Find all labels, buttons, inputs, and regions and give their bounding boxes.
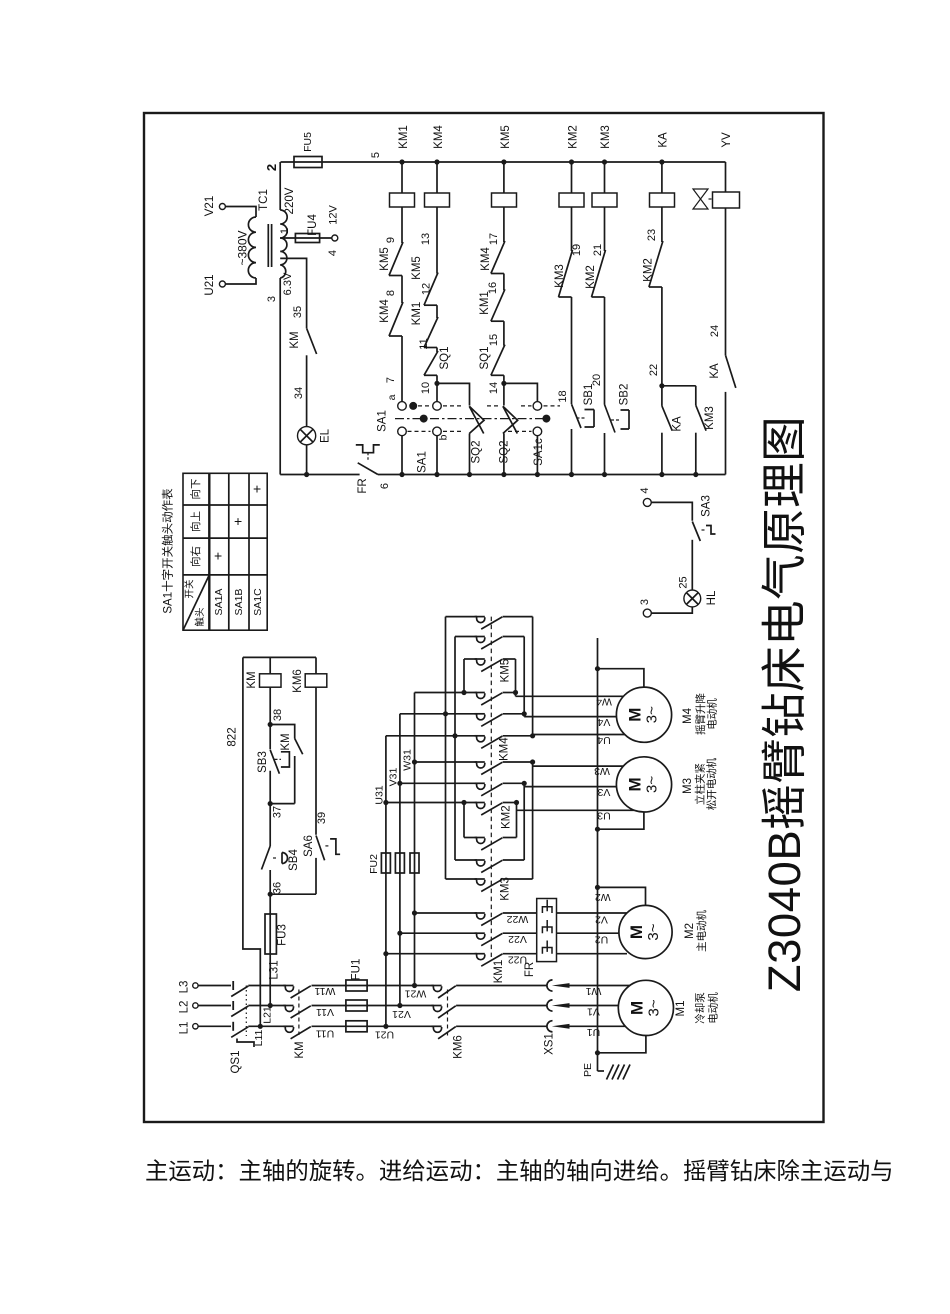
svg-text:3: 3 xyxy=(639,599,651,605)
rail junction dots xyxy=(304,472,309,477)
solenoid valve symbol xyxy=(693,189,708,209)
motor M4 xyxy=(616,687,671,742)
svg-text:W4: W4 xyxy=(596,696,612,708)
coil KM xyxy=(269,657,271,673)
coil KM1 xyxy=(390,193,415,207)
svg-text:V4: V4 xyxy=(597,716,610,728)
svg-text:SA1: SA1 xyxy=(377,410,389,432)
SA1b contact circles xyxy=(433,402,442,411)
svg-text:KM2: KM2 xyxy=(500,805,512,829)
contact KM5 NC (9-8) xyxy=(389,275,402,277)
contact KM2 NC (23) xyxy=(649,286,662,288)
svg-text:10: 10 xyxy=(420,382,432,394)
wire V21 to primary xyxy=(225,207,256,218)
svg-text:TC1: TC1 xyxy=(258,189,270,211)
rail node KM3 xyxy=(602,159,607,164)
svg-text:M: M xyxy=(627,1001,646,1015)
svg-text:KM4: KM4 xyxy=(498,737,510,761)
caption text xyxy=(145,1152,894,1186)
svg-text:1: 1 xyxy=(279,228,291,234)
coil KA xyxy=(650,193,675,207)
supply terminal L1 xyxy=(193,1024,198,1029)
control rail 2 xyxy=(281,161,726,163)
svg-text:U21: U21 xyxy=(375,1028,394,1040)
svg-text:9: 9 xyxy=(385,237,397,243)
svg-text:KM: KM xyxy=(280,733,292,750)
svg-text:SA6: SA6 xyxy=(303,835,315,857)
svg-text:YV: YV xyxy=(721,132,733,148)
fuse FU4 xyxy=(295,234,319,243)
phase wire V after QS1 xyxy=(248,1005,285,1007)
svg-text:FR: FR xyxy=(357,478,369,493)
overload relay FR heaters xyxy=(537,899,557,962)
column V31 xyxy=(399,714,401,1006)
node 14 xyxy=(501,381,506,386)
svg-text:M2: M2 xyxy=(684,923,696,939)
svg-text:W21: W21 xyxy=(405,988,427,1000)
contact KM3 NC (19) xyxy=(559,296,572,298)
svg-text:HL: HL xyxy=(706,590,718,605)
svg-text:开关: 开关 xyxy=(184,579,196,599)
svg-text:38: 38 xyxy=(272,709,284,721)
wire to SA3 xyxy=(651,502,692,520)
svg-text:W3: W3 xyxy=(594,765,610,777)
thermal contact FR xyxy=(358,463,378,475)
wire 22 branch xyxy=(662,385,696,387)
svg-text:M4: M4 xyxy=(682,707,694,724)
svg-text:220V: 220V xyxy=(284,187,296,214)
svg-text:KM5: KM5 xyxy=(379,247,391,271)
rung KM1 wire xyxy=(401,162,403,193)
svg-text:L2: L2 xyxy=(179,1001,191,1014)
tap junctions to FU2 columns xyxy=(412,983,417,988)
svg-text:KA: KA xyxy=(672,416,684,432)
svg-text:L21: L21 xyxy=(261,1006,273,1024)
wire tap 1 to FU4 xyxy=(280,237,332,239)
svg-text:13: 13 xyxy=(420,233,432,245)
SA1 pivot dots xyxy=(409,402,417,410)
pushbutton SB3 NO xyxy=(270,750,279,774)
supply terminal L3 xyxy=(193,983,198,988)
svg-text:KM: KM xyxy=(246,671,258,688)
coil KM5 xyxy=(492,193,517,207)
svg-text:KM4: KM4 xyxy=(433,125,445,149)
bridge feed wires xyxy=(446,616,478,618)
svg-text:FU1: FU1 xyxy=(351,959,363,981)
svg-text:7: 7 xyxy=(385,377,397,383)
contact KM2 NC (21) xyxy=(592,296,605,298)
svg-text:12: 12 xyxy=(420,283,432,295)
svg-text:L31: L31 xyxy=(269,960,281,979)
svg-text:+: + xyxy=(230,517,246,525)
svg-text:18: 18 xyxy=(557,390,569,402)
subcircuit top wire xyxy=(243,656,316,658)
contact KM1 NC (12-11) xyxy=(424,347,437,349)
svg-text:PE: PE xyxy=(582,1063,594,1077)
svg-text:SA1A: SA1A xyxy=(213,589,225,616)
svg-text:822: 822 xyxy=(226,727,238,746)
svg-text:M: M xyxy=(627,925,646,939)
supply terminal L2 xyxy=(193,1003,198,1008)
contact KM NO (35-34) xyxy=(307,328,317,354)
wires to FU1 xyxy=(312,985,369,987)
svg-text:KM1: KM1 xyxy=(479,291,491,315)
coil YV xyxy=(713,192,740,208)
svg-text:V21: V21 xyxy=(204,196,216,216)
node 22 xyxy=(659,383,664,388)
bridge linkage dashed xyxy=(490,617,492,957)
svg-text:37: 37 xyxy=(271,806,283,818)
svg-text:W22: W22 xyxy=(507,913,529,925)
svg-text:3~: 3~ xyxy=(643,706,660,723)
fuse FU2 (three) xyxy=(381,853,390,873)
svg-text:U4: U4 xyxy=(597,734,611,746)
svg-text:20: 20 xyxy=(591,374,603,386)
svg-text:6.3V: 6.3V xyxy=(282,272,294,295)
svg-text:2: 2 xyxy=(264,164,279,171)
wires KM6 to XS1 xyxy=(456,985,547,987)
connector XS1 xyxy=(547,980,553,991)
svg-text:6: 6 xyxy=(379,483,391,489)
svg-text:摇臂升降: 摇臂升降 xyxy=(694,693,707,735)
contact KA NO (24) xyxy=(726,355,736,388)
svg-text:W2: W2 xyxy=(595,891,611,903)
svg-text:冷却泵: 冷却泵 xyxy=(693,992,706,1024)
wire SA1b to rail xyxy=(436,436,438,475)
svg-text:KM5: KM5 xyxy=(500,125,512,149)
M1 frame stub xyxy=(595,1050,600,1055)
svg-text:SA3: SA3 xyxy=(701,495,713,517)
svg-text:5: 5 xyxy=(370,152,382,158)
terminal 3a xyxy=(643,609,651,617)
contact SQ1 NC (15-14) xyxy=(491,374,504,376)
control bottom rail xyxy=(280,474,359,476)
rail node KM5 xyxy=(501,159,506,164)
svg-text:FU3: FU3 xyxy=(277,924,289,946)
svg-text:4: 4 xyxy=(639,487,651,493)
svg-text:V3: V3 xyxy=(597,786,610,798)
table SA1 cross-switch action xyxy=(183,473,267,630)
svg-text:向右: 向右 xyxy=(189,546,202,567)
svg-text:~380V: ~380V xyxy=(236,230,250,265)
column U31 xyxy=(385,736,387,1027)
bridge contacts KM5/KM4/KM2/KM3/KM1 (15 NO contacts) xyxy=(475,616,485,618)
svg-text:17: 17 xyxy=(488,233,500,245)
svg-text:35: 35 xyxy=(292,306,304,318)
svg-text:+: + xyxy=(210,552,226,560)
svg-text:U11: U11 xyxy=(316,1028,335,1040)
ground PE symbol xyxy=(598,1070,605,1072)
SA1a contact circles xyxy=(398,402,407,411)
wire SA1c to rail xyxy=(536,436,538,475)
SA1c contact circles xyxy=(533,402,542,411)
svg-text:b: b xyxy=(437,434,449,440)
rung KM3 wire xyxy=(604,162,606,193)
svg-text:23: 23 xyxy=(646,229,658,241)
svg-text:V22: V22 xyxy=(508,933,527,945)
svg-text:+: + xyxy=(249,485,265,493)
svg-text:KM3: KM3 xyxy=(600,125,612,149)
svg-text:KM3: KM3 xyxy=(499,877,511,901)
svg-text:SQ1: SQ1 xyxy=(439,346,451,369)
svg-text:FU2: FU2 xyxy=(368,854,380,874)
QS1 handle xyxy=(237,1039,254,1048)
svg-text:XS1: XS1 xyxy=(544,1033,556,1055)
contactor KM main contacts xyxy=(283,985,293,987)
motor M3 xyxy=(616,757,671,812)
column W31 xyxy=(414,693,416,986)
phase wire U after QS1 xyxy=(248,1025,285,1027)
svg-text:M1: M1 xyxy=(675,1001,687,1017)
svg-text:M3: M3 xyxy=(682,778,694,794)
svg-text:W31: W31 xyxy=(401,749,413,771)
svg-text:36: 36 xyxy=(271,882,283,894)
svg-text:SA1c: SA1c xyxy=(533,438,545,466)
svg-text:3~: 3~ xyxy=(645,923,662,940)
svg-text:EL: EL xyxy=(320,428,332,443)
svg-text:14: 14 xyxy=(488,382,500,394)
switch QS1 blades xyxy=(231,986,248,997)
svg-text:KM6: KM6 xyxy=(292,669,304,693)
svg-text:3~: 3~ xyxy=(643,776,660,793)
rung YV wire xyxy=(725,162,727,192)
SQ2 wedge 1 xyxy=(469,406,484,433)
transformer TC1 primary winding xyxy=(248,217,256,278)
svg-text:12V: 12V xyxy=(327,205,339,225)
svg-text:SB3: SB3 xyxy=(257,751,269,773)
svg-text:电动机: 电动机 xyxy=(705,698,718,730)
svg-text:25: 25 xyxy=(677,576,689,588)
SA1 dashed contact rows xyxy=(418,405,431,407)
svg-text:电动机: 电动机 xyxy=(706,992,719,1024)
pushbutton SB1 NC xyxy=(572,404,582,428)
svg-text:a: a xyxy=(386,394,398,400)
wire 14 to SA1c xyxy=(504,383,538,401)
svg-text:向上: 向上 xyxy=(189,511,202,532)
svg-text:3: 3 xyxy=(266,296,278,302)
svg-text:KM1: KM1 xyxy=(411,302,423,326)
rail node KA xyxy=(659,159,664,164)
wire 6.3V tap to EL branch xyxy=(280,258,306,328)
svg-text:24: 24 xyxy=(709,325,721,337)
coil KM6 xyxy=(315,657,317,673)
transformer TC1 secondary 220V winding xyxy=(280,210,287,238)
wire SA1a to rail xyxy=(401,436,403,475)
svg-text:Z3040B摇臂钻床电气原理图: Z3040B摇臂钻床电气原理图 xyxy=(759,416,810,992)
svg-text:KM2: KM2 xyxy=(643,258,655,282)
subcircuit left branch 822 xyxy=(243,657,260,1026)
bridge output wires to M4 xyxy=(503,616,533,618)
svg-text:21: 21 xyxy=(592,244,604,256)
svg-text:KM6: KM6 xyxy=(452,1035,464,1059)
svg-text:19: 19 xyxy=(571,244,583,256)
svg-text:KM2: KM2 xyxy=(585,265,597,289)
svg-text:KA: KA xyxy=(658,132,670,148)
transformer TC1 core xyxy=(267,224,269,267)
border frame xyxy=(144,113,824,1122)
rung KA wire xyxy=(661,162,663,193)
rail node KM4 xyxy=(434,159,439,164)
wire 7 xyxy=(401,336,403,402)
svg-text:U3: U3 xyxy=(597,810,611,822)
contact SQ1 NC (11-10) xyxy=(424,374,437,376)
contact KM1 NC (16-15) xyxy=(491,320,504,322)
bridge output wires to M3 xyxy=(503,761,533,763)
W2 lead xyxy=(595,885,600,890)
svg-text:L3: L3 xyxy=(179,981,191,994)
svg-text:KM3: KM3 xyxy=(704,406,716,430)
rung KM2 wire xyxy=(571,162,573,193)
svg-text:SQ2: SQ2 xyxy=(470,440,482,463)
svg-text:KM1: KM1 xyxy=(398,125,410,149)
svg-text:KA: KA xyxy=(709,363,721,379)
contact KM NO self-hold branch xyxy=(270,725,295,739)
switch SA3 xyxy=(692,522,700,542)
svg-text:V11: V11 xyxy=(316,1006,334,1018)
svg-text:QS1: QS1 xyxy=(230,1050,242,1073)
fuse FU5 xyxy=(294,157,322,168)
svg-text:L11: L11 xyxy=(253,1029,265,1046)
svg-text:SA1: SA1 xyxy=(417,451,429,473)
M4 frame stub xyxy=(595,666,600,671)
transformer TC1 secondary 6.3V winding xyxy=(280,238,287,278)
motor M2 xyxy=(619,905,672,958)
svg-text:FU4: FU4 xyxy=(307,214,319,236)
svg-text:向下: 向下 xyxy=(189,479,202,500)
contact KM3 NO (parallel) xyxy=(695,386,697,406)
switch SA6 branch xyxy=(315,687,317,835)
svg-text:FR: FR xyxy=(524,962,536,977)
svg-text:SA1C: SA1C xyxy=(252,588,264,616)
contact KM4 NC (8-7) xyxy=(389,335,402,337)
svg-text:KM5: KM5 xyxy=(499,659,511,683)
svg-text:V21: V21 xyxy=(392,1008,411,1020)
wires FU1 to KM6 xyxy=(367,985,434,987)
lamp EL xyxy=(298,427,316,445)
svg-text:立柱夹紧: 立柱夹紧 xyxy=(693,763,706,805)
svg-text:15: 15 xyxy=(488,334,500,346)
svg-text:SQ1: SQ1 xyxy=(479,346,491,369)
node 36 xyxy=(268,892,273,897)
terminal 4a xyxy=(643,498,651,506)
contactor KM6 main contacts xyxy=(431,985,441,987)
limit switch SQ2 branch 2 wedge xyxy=(503,406,518,433)
svg-text:8: 8 xyxy=(385,290,397,296)
svg-text:U21: U21 xyxy=(204,274,216,295)
terminal 4 (12V) xyxy=(332,235,338,241)
KM1 outputs to FR xyxy=(503,912,537,914)
lamp HL xyxy=(684,590,701,607)
svg-text:3~: 3~ xyxy=(645,999,662,1016)
svg-text:SA1B: SA1B xyxy=(233,589,245,616)
svg-text:KM: KM xyxy=(294,1041,306,1058)
svg-text:主电动机: 主电动机 xyxy=(695,910,708,952)
phase wire W after QS1 xyxy=(248,985,285,987)
FR outputs to M2 xyxy=(557,912,647,914)
svg-text:22: 22 xyxy=(648,364,660,376)
contact KA NO xyxy=(662,406,672,431)
terminal V21 xyxy=(219,204,225,210)
svg-text:W11: W11 xyxy=(314,985,335,997)
svg-text:34: 34 xyxy=(293,387,305,399)
fuse FU3 xyxy=(269,894,271,1005)
pushbutton SB2 NC xyxy=(605,405,616,433)
svg-text:M: M xyxy=(625,777,644,791)
coil KM3 xyxy=(592,193,617,207)
svg-text:L1: L1 xyxy=(179,1022,191,1035)
node 10 xyxy=(434,381,439,386)
node 38 xyxy=(268,722,273,727)
node 5 xyxy=(399,159,404,164)
svg-text:KM4: KM4 xyxy=(379,299,391,323)
svg-text:W1: W1 xyxy=(585,985,601,997)
svg-text:SB2: SB2 xyxy=(619,384,631,406)
svg-text:KM1: KM1 xyxy=(493,960,505,984)
switch SA1 mechanical dash-dot line xyxy=(395,418,551,420)
svg-text:KM3: KM3 xyxy=(554,264,566,288)
rail node KM2 xyxy=(569,159,574,164)
PE bus xyxy=(597,638,599,1071)
svg-text:39: 39 xyxy=(316,812,328,824)
svg-text:SQ2: SQ2 xyxy=(499,440,511,463)
M3 frame stub xyxy=(595,827,600,832)
svg-text:SB4: SB4 xyxy=(288,849,300,871)
svg-text:KM5: KM5 xyxy=(411,256,423,280)
svg-text:M: M xyxy=(625,708,644,722)
coil KM2 xyxy=(559,193,584,207)
wire 220V tap to rail 2 xyxy=(279,162,281,210)
svg-text:SA1十字开关触头动作表: SA1十字开关触头动作表 xyxy=(161,488,175,614)
contact KM4 NC (17-16) xyxy=(491,273,504,275)
contact KM5 NC (13-12) xyxy=(424,304,437,306)
fuse FU1 (three) xyxy=(346,980,367,991)
svg-text:KM4: KM4 xyxy=(480,247,492,271)
terminal U21 xyxy=(219,281,225,287)
rung KM5 wire xyxy=(503,162,505,193)
QS1 linkage xyxy=(245,986,247,1037)
wire U21 to primary xyxy=(225,278,256,284)
coil KM4 xyxy=(425,193,450,207)
svg-text:11: 11 xyxy=(418,338,430,349)
rung KM4 wire xyxy=(436,162,438,193)
limit switch SQ2 branch 1 xyxy=(437,383,470,405)
node 37 xyxy=(268,801,273,806)
motor M1 xyxy=(618,980,673,1035)
svg-text:KM2: KM2 xyxy=(568,125,580,149)
wire 3 rail (left) xyxy=(279,278,281,475)
svg-text:KM: KM xyxy=(289,331,301,348)
svg-text:松开电动机: 松开电动机 xyxy=(705,757,718,810)
svg-text:FU5: FU5 xyxy=(302,132,314,152)
svg-text:4: 4 xyxy=(327,250,339,256)
svg-text:触头: 触头 xyxy=(194,607,206,626)
pushbutton SB4 NC mushroom xyxy=(262,846,271,870)
